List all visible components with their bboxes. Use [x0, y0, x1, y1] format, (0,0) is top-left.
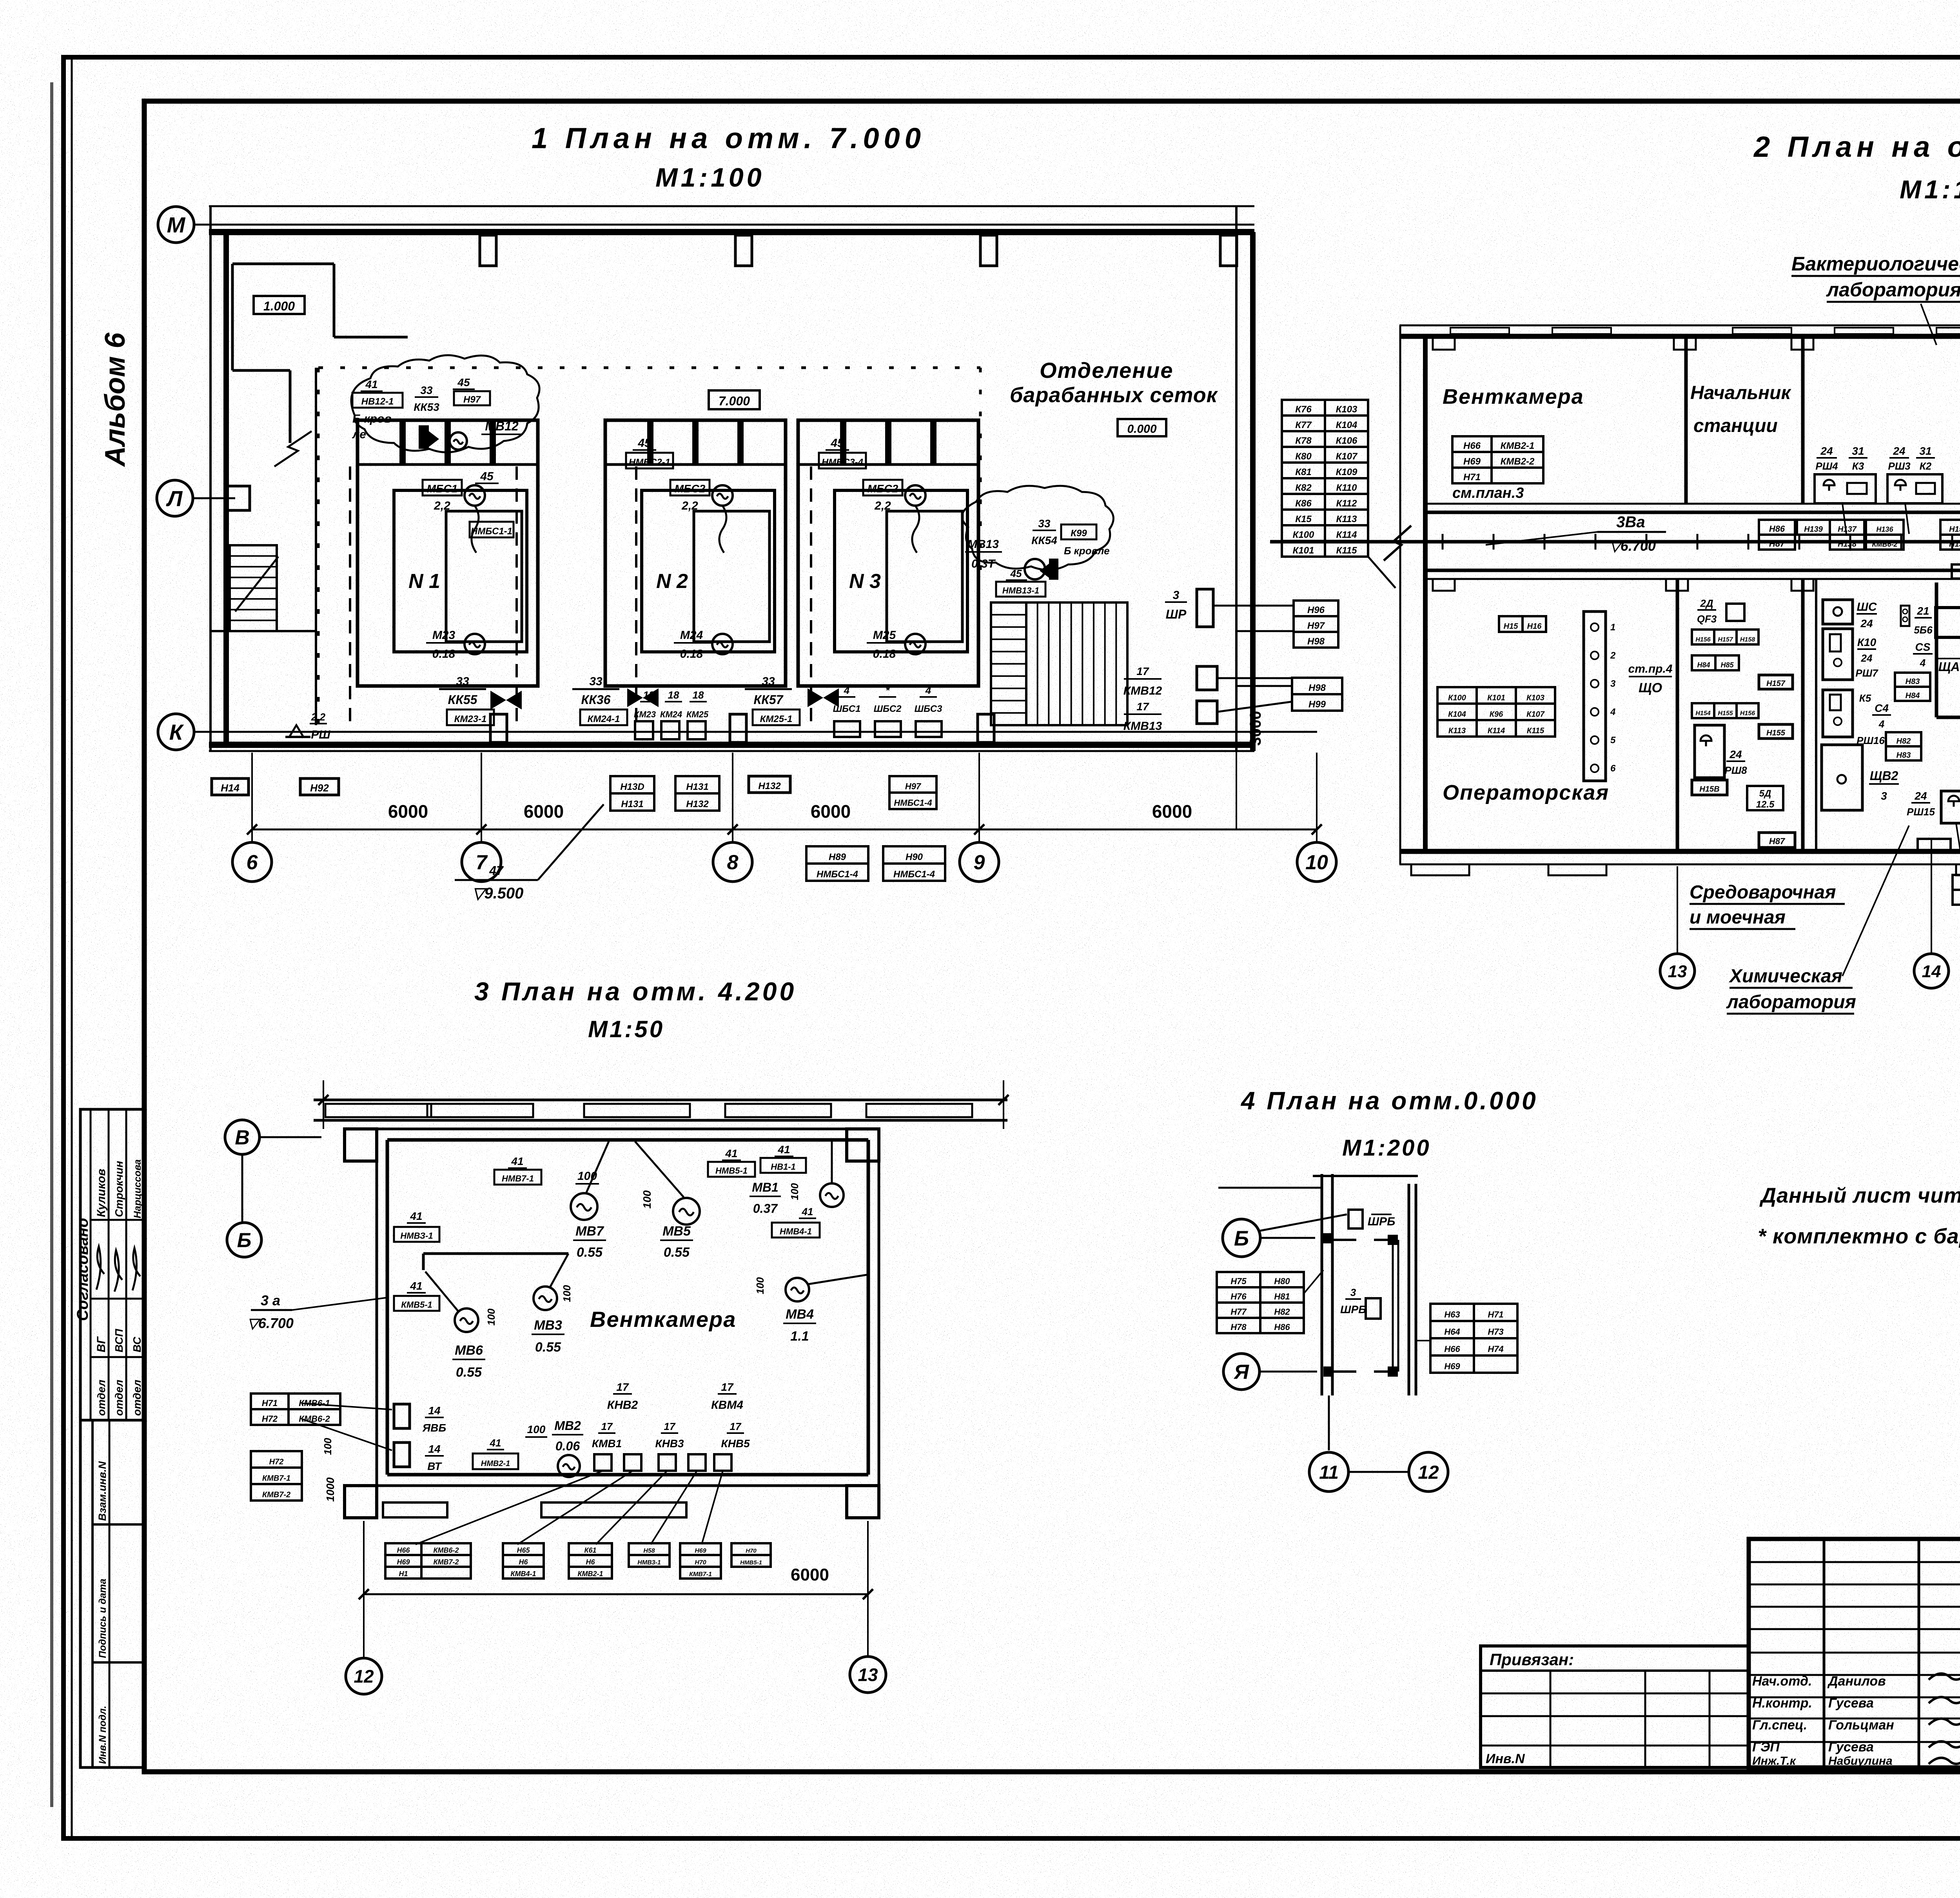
plan 4 left duct wall — [1321, 1174, 1323, 1395]
motor МВ1 — [820, 1183, 844, 1207]
cloud callout at МВ12 — [351, 355, 539, 452]
axis circle 12 plan 4 — [1409, 1452, 1448, 1492]
partition Начальник станции right — [1801, 336, 1805, 504]
device box РШ15 group — [1941, 791, 1960, 823]
unit N2 inner frame — [642, 490, 775, 652]
label НМВ4-1 box — [772, 1223, 820, 1238]
cable drop to МВ7 — [586, 1141, 609, 1192]
privyazan table — [1481, 1646, 1749, 1767]
switch cabinet ЩС — [1823, 600, 1853, 624]
bottom boxes group 4 — [629, 1543, 670, 1555]
axis circle 12 plan 3 — [346, 1658, 382, 1694]
box stack Н131 Н132 — [675, 776, 719, 793]
label 41 НМВ2-1 — [473, 1453, 518, 1469]
label КМ23-1 box — [447, 709, 494, 725]
plan 4 right duct wall — [1408, 1184, 1410, 1395]
cable drop to МВ3 — [550, 1254, 568, 1287]
plan 3 left top pilaster — [345, 1129, 377, 1161]
partition pair Средоварочная — [1815, 579, 1817, 851]
motor МВ13 — [1025, 559, 1045, 579]
plan 1 outer wall top thin line — [209, 205, 1254, 207]
box Н15 Н16 — [1499, 616, 1523, 632]
boxes Н72 КМВ7-1 КМВ7-2 — [251, 1451, 302, 1468]
box stack Н13D Н131 — [610, 776, 654, 793]
approval table row dividers — [80, 1419, 144, 1422]
plan 3 left bottom pilaster — [345, 1486, 377, 1518]
motor МВ7 — [571, 1193, 597, 1220]
unit N3 top band — [798, 463, 978, 466]
roof dimension ticks — [323, 1080, 324, 1129]
corridor label boxes row — [1759, 520, 1795, 535]
plan 3 inner wall lines — [387, 1138, 868, 1142]
box stack Н89 НМБС1-4 — [806, 846, 868, 864]
plan 1 right wall — [1235, 206, 1238, 751]
title block outer box — [1749, 1539, 1960, 1767]
right staircase — [991, 602, 1026, 725]
motor МВ4 — [786, 1278, 809, 1301]
motor МБС2 of unit N2 — [712, 485, 733, 506]
boxes Н154 Н155 Н156 row2 — [1692, 703, 1714, 718]
drum hall dashed line left of unit 1 — [349, 466, 351, 725]
dimension line plan 1 — [252, 829, 1317, 831]
label МБС2 2,2 — [863, 480, 902, 495]
partition Венткамера right — [1684, 336, 1688, 504]
plan 2 left wall — [1399, 325, 1401, 864]
drum hall dashed unit dividers — [515, 466, 518, 725]
box stack Н98 Н99 — [1292, 678, 1342, 694]
left margin inventory table — [91, 1420, 94, 1767]
plan 3 dimension line — [364, 1593, 868, 1595]
box Н132 — [749, 776, 790, 793]
motor М25 of unit N3 — [905, 634, 926, 654]
boxes Н63..Н74 plan 4 — [1430, 1304, 1474, 1321]
unit N3 drum — [887, 511, 962, 642]
doorway bump bottom — [1918, 839, 1951, 851]
plan 4 stub walls — [1332, 1239, 1356, 1241]
device box РШ3 К2 — [1887, 474, 1942, 503]
plan 4 top line — [1313, 1175, 1418, 1177]
boxes Н84 Н85 — [1692, 655, 1715, 670]
axis leads plan 4 — [1260, 1237, 1315, 1239]
drum screen unit N1 outline — [358, 420, 538, 686]
leader lines into boxes — [1238, 685, 1292, 687]
plan 2 bottom window parapets — [1411, 864, 1469, 875]
corridor upper wall — [1425, 503, 1960, 505]
axis leader В-Б — [241, 1154, 243, 1223]
box stack Н97 НМБС1-4 — [889, 776, 936, 793]
plan 1 bottom wall heavy — [209, 742, 1254, 748]
box stack Н96 Н97 Н98 — [1294, 601, 1338, 616]
wire trunk top — [423, 1252, 568, 1255]
roof band windows — [325, 1104, 431, 1117]
unit N3 inner frame — [835, 490, 967, 652]
cabinet ЩВ2 — [1822, 745, 1862, 810]
bottom boxes group 5 — [680, 1543, 721, 1555]
link line 11-12 — [1348, 1471, 1409, 1473]
leaders from РШ devices down — [1956, 823, 1960, 874]
unit N1 inner frame — [394, 490, 527, 652]
bottom boxes group 1 — [385, 1543, 421, 1555]
axis line М — [194, 224, 1254, 226]
plan 3 roof band — [314, 1099, 1007, 1101]
plan 4 axis circle Я — [1223, 1354, 1259, 1390]
squiggle wire at unit N2 — [719, 506, 726, 553]
cabinet ЩАК — [1936, 608, 1960, 637]
panel ЩО column with circuit circles — [1584, 611, 1606, 781]
plan 1 axis circle К — [158, 714, 194, 750]
unit N2 drum — [694, 511, 769, 642]
axis circle 13 plan 3 — [850, 1657, 886, 1693]
cable break symbol — [1384, 526, 1411, 561]
vertical dimension 3000 — [1236, 732, 1237, 829]
dimension extension lines plan 1 — [251, 753, 253, 842]
table К100 К101 К103 rows — [1437, 687, 1477, 704]
box Н15В — [1692, 780, 1727, 795]
approval table person columns — [108, 1109, 110, 1420]
title block left sign grid rows — [1749, 1561, 1960, 1563]
leader Б to ШРБ — [1259, 1214, 1347, 1231]
corridor lower wall — [1425, 569, 1960, 572]
unit N1 top band — [358, 463, 538, 466]
bottom boxes group 6 — [731, 1543, 771, 1555]
title block left sign grid verticals — [1823, 1539, 1826, 1767]
drum hall dotted boundary top — [318, 367, 980, 369]
scanner edge streak — [50, 82, 53, 1807]
box Н87 — [1759, 833, 1795, 847]
label МБС1 2,2 — [423, 480, 462, 495]
plan 4 left outside line — [1218, 1187, 1322, 1189]
boxes Н83 Н84 mid — [1895, 673, 1930, 687]
cable drop to МВ1 — [831, 1141, 833, 1183]
plan 1 outer wall top heavy line — [209, 229, 1254, 235]
drum hall dotted boundary right — [979, 368, 982, 584]
plan 3 right top pilaster — [847, 1129, 879, 1161]
left staircase — [230, 545, 277, 631]
plan 3 bottom outside ledges — [383, 1502, 447, 1517]
motor МВ3 — [534, 1287, 557, 1310]
cloud callout at МВ13 — [962, 486, 1113, 570]
box stack Н90 НМБС1-4 — [883, 846, 945, 864]
level mark box 7.000 — [709, 390, 760, 409]
plan 3 axis circle Б — [227, 1223, 261, 1257]
leader 47 to plan — [538, 804, 604, 880]
motor М24 of unit N2 — [712, 634, 733, 654]
leader ШР to boxes — [1213, 605, 1294, 607]
plan 4 axis circle Б — [1223, 1219, 1260, 1257]
plan 3 right bottom pilaster — [847, 1486, 879, 1518]
device box РШ4 К3 — [1815, 474, 1876, 503]
leader Бакт down — [1921, 304, 1936, 345]
pilasters under corridor lower wall — [1433, 579, 1455, 591]
axis line Л stub — [193, 497, 235, 499]
box stack Н66 КМВ2-1 Н69 КМВ2-2 Н71 — [1452, 436, 1492, 452]
drum hall dotted boundary left — [317, 368, 320, 725]
left margin approval table — [80, 1109, 144, 1767]
motor МВ2 — [558, 1455, 580, 1477]
boxes Н82 Н83 — [1886, 732, 1921, 746]
squiggle wire at unit N1 — [472, 506, 479, 553]
cable drop to МВ4 — [808, 1275, 867, 1284]
bottom-half partition 2 — [1801, 579, 1805, 851]
plan 2 bottom wall — [1399, 849, 1960, 854]
leader Химическая up — [1842, 826, 1909, 976]
cable drop to МВ5 — [635, 1141, 684, 1197]
squiggle wire at unit N3 — [912, 506, 919, 553]
vent flag МВ12 — [419, 425, 429, 449]
wall anteroom vertical — [1935, 582, 1938, 717]
sheet outer border left double line — [71, 59, 73, 1838]
drum screen unit N2 outline — [605, 420, 786, 686]
motor МВ12 — [450, 432, 467, 450]
lower left room wall — [211, 630, 316, 632]
axis circle 11 plan 4 — [1309, 1452, 1348, 1492]
boxes Н71 КМВ6-1 Н72 КМВ6-2 — [251, 1394, 289, 1409]
leader РШ4 down to corridor — [1842, 503, 1846, 534]
wall anteroom horizontal — [1936, 716, 1960, 719]
cabinet ШРБ upper — [1348, 1210, 1363, 1228]
plan 1 left wall — [209, 206, 212, 751]
connector squares row plan 3 — [594, 1454, 612, 1471]
upper-left annex room with mark 1.000 — [232, 263, 334, 265]
cabinet К5 С4 — [1823, 690, 1853, 737]
boxes Н156 Н157 Н158 — [1692, 630, 1714, 644]
label КМ25-1 box — [753, 709, 800, 725]
top wall pilasters — [480, 235, 496, 266]
unit N2 top band — [605, 463, 786, 466]
plan 3 outer walls — [377, 1128, 847, 1130]
boxes Н14 Н92 below К axis — [212, 778, 249, 795]
drum screen unit N3 outline — [798, 420, 978, 686]
plan 4 inner vertical duct — [1392, 1240, 1394, 1372]
boxes Н75..Н86 plan 4 — [1217, 1272, 1260, 1287]
plan 3 axis circle В — [225, 1120, 260, 1154]
box 5D 12.5 — [1747, 786, 1783, 810]
cabinet left small — [1695, 725, 1724, 778]
pilasters under top wall — [1433, 336, 1455, 350]
interior wall left block — [315, 368, 317, 725]
bottom-half partition Операторская right — [1676, 579, 1679, 851]
leader from К table — [1368, 557, 1396, 588]
unit N1 drum — [446, 511, 522, 642]
leaders from squares to bottom boxes — [416, 1471, 603, 1544]
axis number circles 13 14 15 16 — [1677, 866, 1678, 954]
motor МВ6 — [455, 1308, 478, 1332]
leader boxes to duct — [1304, 1270, 1323, 1294]
privyazan verticals — [1550, 1671, 1552, 1767]
box Н157 single — [1759, 675, 1793, 689]
label КМ24-1 box — [580, 709, 627, 725]
level mark box 1.000 — [254, 296, 305, 314]
bottom wall pilasters — [490, 714, 507, 742]
bottom boxes group 3 — [569, 1543, 612, 1555]
corridor cable run with ticks — [1270, 540, 1960, 544]
plan 2 outer wall top — [1399, 325, 1960, 327]
motor М23 of unit N1 — [465, 634, 485, 654]
motor МБС2 of unit N3 — [905, 485, 926, 506]
plan 4 node squares — [1323, 1233, 1333, 1243]
label К99 box — [1061, 524, 1096, 539]
vent flag МВ13 — [1049, 559, 1058, 580]
boxes Н85 Н88 under wall — [1953, 875, 1960, 890]
column К76..К115 table — [1282, 400, 1325, 416]
connector squares КМ23 КМ24 КМ25 — [635, 721, 653, 739]
plan 2 top wall window slots — [1450, 328, 1509, 334]
panel ВТ — [394, 1443, 410, 1467]
bottom boxes group 2 — [503, 1543, 544, 1555]
plan 1 axis circle М — [158, 207, 194, 243]
cabinet К10 РШ7 — [1823, 629, 1853, 680]
level mark box 0.000 — [1118, 419, 1166, 436]
device 21 5Б6 — [1901, 606, 1909, 626]
plan 1 axis circle Л — [157, 480, 193, 516]
plan 4 axis 11 leader — [1328, 1395, 1330, 1450]
signature squiggles — [1929, 1673, 1960, 1680]
approval signatures — [96, 1247, 104, 1290]
drainage symbol РШ — [289, 725, 303, 737]
label МБС2 2,2 — [670, 480, 710, 495]
box Н155 single — [1759, 724, 1793, 739]
leader lines into plan 3 left wall — [302, 1403, 392, 1410]
approval table column Согласовано — [90, 1109, 92, 1420]
axis number circles 6 7 8 9 10 — [232, 842, 272, 882]
break line in annex — [274, 431, 312, 466]
motor МВ5 — [673, 1198, 700, 1225]
axis line К — [194, 731, 1317, 733]
left wall pilaster at Л — [226, 486, 250, 510]
motor МБС1 of unit N1 — [465, 485, 485, 506]
panel ЯВБ — [394, 1404, 410, 1428]
cable drop to МВ6 — [425, 1272, 458, 1311]
